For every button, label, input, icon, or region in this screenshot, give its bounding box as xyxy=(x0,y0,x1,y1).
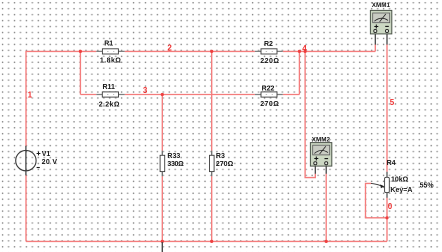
junction node 3 row at x=162.3 xyxy=(161,93,164,96)
svg-text:220Ω: 220Ω xyxy=(260,58,279,65)
svg-text:330Ω: 330Ω xyxy=(167,161,184,168)
wire: left vertical branch to V1 xyxy=(25,51,27,242)
wire: R4 bottom lead to bottom net xyxy=(386,198,388,242)
wire: R3 branch vertical x=211.7 xyxy=(211,51,213,241)
resistor R33 xyxy=(160,151,184,177)
voltage source V1 xyxy=(16,146,58,176)
svg-text:V1: V1 xyxy=(42,151,51,158)
multimeter XMM1 xyxy=(370,2,391,45)
svg-text:Key=A: Key=A xyxy=(390,187,412,194)
wire: XMM1 left terminal drop to top net xyxy=(374,44,376,51)
svg-text:5: 5 xyxy=(390,98,395,107)
wire: XMM2 left feed from node 4 xyxy=(305,51,315,177)
wire: top horizontal net (node1-2-4) y=51.4 xyxy=(26,50,375,52)
svg-text:R33: R33 xyxy=(167,153,180,160)
svg-text:R4: R4 xyxy=(387,160,396,167)
svg-text:55%: 55% xyxy=(420,182,435,189)
svg-text:20 V: 20 V xyxy=(42,159,58,166)
svg-text:3: 3 xyxy=(143,86,148,95)
svg-text:2.2kΩ: 2.2kΩ xyxy=(99,101,120,108)
wire: R4 wiper connection xyxy=(366,183,388,217)
wire: XMM1 right terminal down to R4 (node 5) xyxy=(386,44,388,171)
wire: riser from R22 right to node 4 x=299.4 xyxy=(298,51,300,94)
junction bottom net at x=162.3 xyxy=(161,240,164,243)
svg-text:0: 0 xyxy=(388,202,393,211)
wire: bottom horizontal net (node 0) y=241.4 xyxy=(26,240,387,242)
svg-text:1.8kΩ: 1.8kΩ xyxy=(100,58,121,65)
svg-text:R22: R22 xyxy=(262,85,275,92)
svg-text:XMM1: XMM1 xyxy=(372,2,391,9)
resistor R2 xyxy=(255,41,283,65)
svg-text:4: 4 xyxy=(302,44,307,53)
ground lead stub below bottom net xyxy=(161,242,163,252)
junction bottom net at x=326.2 xyxy=(325,240,328,243)
svg-text:2: 2 xyxy=(167,44,172,53)
junction on top net at x=80.4 xyxy=(79,50,82,53)
svg-text:R1: R1 xyxy=(104,40,113,47)
multimeter XMM2 xyxy=(310,136,331,174)
svg-text:R3: R3 xyxy=(216,153,225,160)
potentiometer R4 xyxy=(371,160,434,198)
junction R4 wiper to bottom lead xyxy=(385,216,388,219)
resistor R22 xyxy=(255,85,283,108)
svg-text:270Ω: 270Ω xyxy=(216,161,234,168)
resistor R3 xyxy=(210,151,234,177)
svg-text:270Ω: 270Ω xyxy=(260,101,279,108)
junction bottom net at x=211.7 xyxy=(210,240,213,243)
wire: R11/R22 row (node 3) y=94.5 xyxy=(80,94,299,96)
svg-text:1: 1 xyxy=(28,91,33,100)
junction node 4 at x=305.1 xyxy=(304,50,307,53)
svg-text:10kΩ: 10kΩ xyxy=(391,177,409,184)
resistor R1 xyxy=(96,40,124,64)
wire: R33 branch vertical x=162.3 xyxy=(161,95,163,242)
junction node 4 at x=299.4 xyxy=(298,50,301,53)
junction on top net at x=211.7 xyxy=(210,50,213,53)
wire: XMM2 right terminal to bottom net xyxy=(325,174,327,242)
svg-text:XMM2: XMM2 xyxy=(312,136,331,143)
svg-text:R2: R2 xyxy=(264,41,273,48)
wire: vertical from node A junction x=80.4 down to R11 row xyxy=(79,51,81,94)
svg-text:R11: R11 xyxy=(103,84,116,91)
resistor R11 xyxy=(96,84,124,108)
